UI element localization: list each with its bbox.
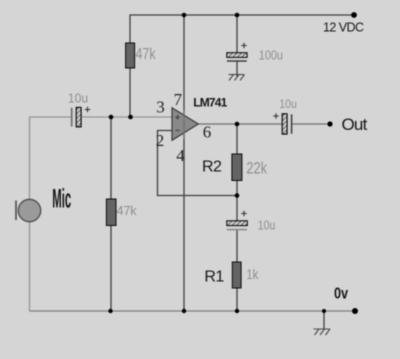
svg-text:100u: 100u [259,49,283,63]
svg-text:2: 2 [156,131,165,150]
svg-text:R1: R1 [204,268,224,285]
svg-text:LM741: LM741 [193,96,227,110]
svg-text:Out: Out [342,115,368,134]
svg-text:Mic: Mic [52,184,71,214]
svg-text:12 VDC: 12 VDC [323,21,364,35]
svg-text:10u: 10u [68,91,88,105]
svg-text:22k: 22k [246,160,267,178]
svg-text:10u: 10u [279,98,297,111]
svg-text:47k: 47k [136,45,157,63]
svg-text:1k: 1k [246,267,258,282]
svg-text:10u: 10u [258,218,276,232]
svg-text:47k: 47k [117,204,138,218]
svg-text:0v: 0v [334,285,348,302]
svg-text:6: 6 [203,122,212,141]
svg-text:7: 7 [174,90,183,109]
svg-text:4: 4 [176,146,185,165]
svg-text:R2: R2 [202,158,222,175]
svg-text:3: 3 [156,97,165,116]
